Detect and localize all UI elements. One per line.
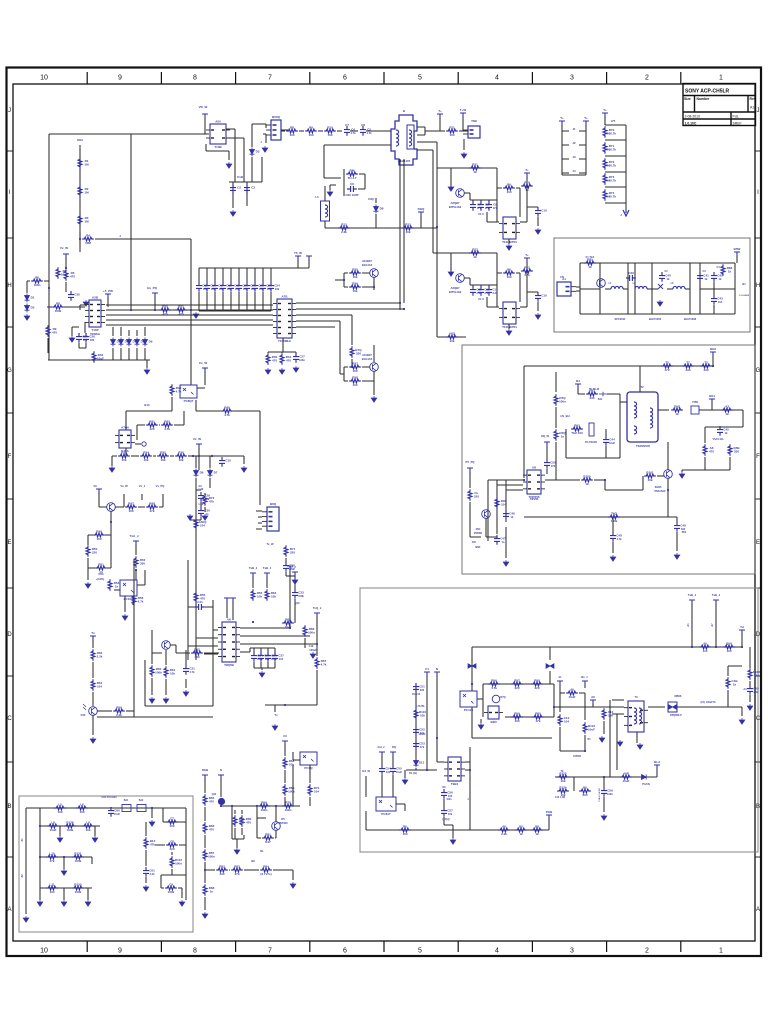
wire [165,650,167,695]
wire [578,388,585,394]
resistor R46 [175,454,187,458]
svg-text:TxB_J: TxB_J [249,566,258,570]
capacitor C29 [198,492,204,502]
svg-text:J2: J2 [572,141,576,145]
resistor R118 [620,775,632,779]
svg-text:VD_W: VD_W [199,105,208,109]
svg-text:R84: R84 [263,864,269,868]
svg-text:100: 100 [402,832,407,836]
svg-text:H: H [756,283,760,289]
svg-text:220: 220 [92,551,97,555]
resistor R90 [703,444,707,456]
capacitor C12 [478,286,484,296]
capacitor C42 [292,589,298,599]
wire [480,719,482,723]
wire [527,207,538,226]
transistor Q13 [482,510,491,519]
wire box3 rect bottom [472,737,552,739]
capacitor C28 [219,457,225,467]
svg-text:C3: C3 [251,186,255,190]
ground [230,210,236,216]
svg-text:Tx: Tx [274,713,278,717]
wire [559,727,561,751]
svg-text:330: 330 [703,368,708,372]
svg-text:R41: R41 [149,419,155,423]
svg-text:C41: C41 [197,600,203,604]
ground [183,690,189,696]
svg-text:R12: R12 [341,222,347,226]
svg-text:F1 T2A: F1 T2A [586,255,595,259]
svg-text:R49: R49 [96,529,102,533]
wire [711,403,713,410]
junction [712,365,714,367]
wire [712,356,714,366]
wire [316,670,318,705]
capacitor C76 [441,807,447,817]
svg-text:100k: 100k [257,657,263,661]
svg-text:C38: C38 [289,564,295,568]
wire ladder1 rung 1 [562,130,586,132]
junction [135,569,137,571]
svg-text:C41: C41 [703,274,709,278]
junction [275,805,277,807]
wire bus left ext [47,306,85,308]
svg-text:HV_BH: HV_BH [560,414,569,418]
wire [647,288,652,290]
svg-text:T8Q5B: T8Q5B [224,663,235,667]
capacitor C10 [535,207,541,217]
wire [375,198,377,228]
wire bus drop lower 7 [246,292,248,311]
wire left vertical [48,134,50,360]
wire bus drop 2 [206,268,208,282]
wire [163,808,186,822]
svg-text:Vx_PQ: Vx_PQ [156,484,165,488]
jumper JP1 [122,805,131,812]
svg-text:B1G4A5: B1G4A5 [362,357,373,361]
wire [658,409,669,411]
svg-text:1k: 1k [115,585,119,589]
wire L5 [324,186,326,228]
wire cap cluster [229,157,262,208]
svg-text:A6: A6 [502,824,506,828]
svg-text:C31: C31 [189,667,195,671]
capacitor C58 [494,535,500,545]
svg-text:RQ: RQ [392,745,396,749]
resistor R26 [349,285,361,289]
ground [272,724,278,730]
wire box4 left rail [25,808,27,914]
wire bus drop 5 [230,268,232,282]
svg-text:A: A [756,907,760,913]
ground [279,368,285,374]
controller U6 [218,622,240,662]
svg-text:R4: R4 [86,233,90,237]
svg-text:PC-P2LDB: PC-P2LDB [585,441,597,444]
wire [284,797,286,806]
wire CN1 to rails [576,263,580,314]
resistor R82 [700,364,712,368]
capacitor C11 [470,286,476,296]
svg-text:A0Q: A0Q [449,331,456,335]
resistor R103 [511,682,523,686]
power P9 [295,256,301,261]
varistor RV1 [658,284,663,289]
svg-text:TxQ_J: TxQ_J [313,606,322,610]
svg-text:Q10: Q10 [294,601,300,605]
wire [351,359,353,368]
svg-text:10uF: 10uF [61,273,68,277]
svg-text:4.7k: 4.7k [491,686,497,690]
svg-text:R93: R93 [574,423,580,427]
ground [292,578,298,584]
svg-text:TH 4.7: TH 4.7 [347,176,356,180]
resistor R91 [728,444,732,456]
bridge diodes D15 [669,705,677,710]
wire [486,518,497,537]
title block [683,84,756,127]
svg-text:D3: D3 [256,150,260,154]
svg-text:PC9Q: PC9Q [304,766,313,770]
svg-text:4.7k: 4.7k [189,670,195,674]
svg-text:R36: R36 [178,450,184,454]
ic U12 [484,706,503,719]
wire U10 right 5 [296,326,335,328]
wire [170,455,174,457]
diode DX129 [127,338,132,347]
svg-text:C47: C47 [500,537,506,541]
svg-text:6: 6 [343,948,347,955]
wire [350,130,358,132]
svg-text:C53: C53 [419,742,425,746]
capacitor C2 [230,184,236,194]
svg-text:T6B: T6B [471,119,478,123]
svg-text:B1G4A5: B1G4A5 [362,263,373,267]
svg-text:47k: 47k [493,206,498,210]
capacitor C46 [265,652,271,662]
wire [309,797,311,806]
wire [604,480,606,490]
svg-text:R19: R19 [524,180,530,184]
svg-text:T5_W: T5_W [294,251,302,255]
wire [497,273,520,302]
ground [747,704,753,710]
capacitor CB6 [236,282,242,292]
resistor R88 [671,408,683,412]
wire [343,169,345,196]
svg-text:R48: R48 [149,501,155,505]
svg-text:G: G [7,368,12,374]
svg-text:R1 (4x): R1 (4x) [409,772,417,775]
svg-text:T5: T5 [665,360,669,364]
wire [526,271,528,307]
svg-text:L6: L6 [80,802,84,806]
wire box4 rail2 [40,808,100,826]
svg-text:B64: B64 [709,394,715,398]
ground [85,582,91,588]
svg-text:100n: 100n [208,855,215,859]
svg-text:T0P25B: T0P25B [530,498,539,501]
svg-text:T2: T2 [640,385,644,389]
svg-text:CN: CN [560,275,564,279]
svg-text:D5: D5 [281,817,285,821]
tick bottom [160,941,162,952]
wire chain to right [80,232,191,246]
svg-text:100: 100 [79,810,84,814]
svg-text:100k: 100k [75,859,82,863]
resistor R81 [682,364,694,368]
wire [151,630,153,695]
wire ladder left [415,684,417,763]
resistor R136 [72,855,84,859]
svg-text:100: 100 [352,383,357,387]
svg-text:1k: 1k [733,683,737,687]
svg-text:T+: T+ [438,109,442,113]
wire [699,409,743,411]
wire [152,645,219,653]
resistor R54 [251,589,255,601]
resistor R131 [76,806,88,810]
wire [605,429,607,458]
wire [469,747,471,830]
svg-text:10uF: 10uF [396,770,402,774]
svg-text:R124: R124 [559,785,567,789]
diode D11 [691,406,699,414]
svg-text:C8: C8 [170,839,174,843]
svg-text:100: 100 [289,133,294,137]
svg-text:8: 8 [193,75,197,82]
svg-text:U6: U6 [227,618,231,622]
wire [699,282,701,289]
svg-text:R36: R36 [352,281,358,285]
wire [309,765,311,783]
capacitor C77 [747,685,753,695]
power P39 [546,815,552,820]
wire [339,321,341,345]
wire loop [232,806,244,839]
svg-text:R56: R56 [491,678,497,682]
svg-text:470: 470 [52,331,57,335]
resistor R112 [726,677,730,689]
svg-text:T+: T+ [584,116,588,120]
wire box3 mid rail2 [505,716,554,718]
svg-text:104: 104 [49,890,54,894]
wire bus drop lower 8 [254,292,256,311]
wire bus top [199,267,274,269]
svg-text:T10UBP01: T10UBP01 [502,325,517,329]
power V9 bar [96,489,102,494]
svg-text:470: 470 [209,828,214,832]
wire [236,839,238,848]
svg-text:A10B07: A10B07 [362,353,372,357]
svg-text:R38: R38 [352,375,358,379]
svg-text:C37: C37 [278,654,284,658]
svg-text:T106MHz: T106MHz [278,339,292,343]
ground [674,553,680,559]
wire [235,810,242,839]
svg-text:C27: C27 [299,355,305,359]
wire [337,130,342,132]
ground [503,560,509,566]
diode D13 [546,664,554,669]
jumper JP2 [137,805,146,812]
resistor R57 [303,625,307,637]
resistor RL1 [603,126,607,138]
resistor R11 [305,129,317,133]
svg-text:R69: R69 [261,800,267,804]
wire [704,427,706,443]
wire [464,193,497,200]
svg-text:680.7k: 680.7k [607,195,617,199]
transistor Q6 [370,363,379,372]
svg-text:100k: 100k [271,657,277,661]
wire ladder2 rung 4 [605,171,626,173]
wire [713,282,715,314]
svg-text:10k: 10k [560,779,565,783]
svg-text:10k: 10k [143,458,148,462]
ground [262,146,268,152]
svg-text:220: 220 [534,686,539,690]
capacitor C70 [413,683,419,693]
power P1 [437,114,443,119]
svg-text:10k: 10k [170,672,175,676]
svg-text:C6: C6 [350,182,354,186]
svg-text:10k: 10k [257,595,262,599]
svg-text:Ad: Ad [743,688,747,691]
svg-text:104: 104 [564,720,569,724]
svg-text:D12: D12 [419,761,425,765]
wire box3 rail y707 left [555,706,612,708]
ground [187,514,193,520]
resistor R46 [194,591,198,603]
resistor R59 [283,757,287,769]
optocoupler U7 [300,752,317,765]
svg-text:470: 470 [664,368,669,372]
ic U1 [206,124,230,144]
svg-text:B50Q: B50Q [272,115,281,119]
svg-text:100: 100 [514,719,519,723]
ground [478,723,484,729]
svg-text:Vx_W: Vx_W [120,484,128,488]
svg-text:L10: L10 [49,851,55,855]
wire [607,394,620,410]
svg-text:2.2k: 2.2k [341,230,347,234]
svg-text:C33: C33 [298,591,304,595]
svg-text:10x_J: 10x_J [581,676,589,679]
svg-text:A6QB7: A6QB7 [451,201,460,205]
junction [715,646,717,648]
wire bus line 2 [106,309,273,311]
transformer T1 primary coil [396,130,399,146]
tick bottom [606,941,608,952]
power P16 [224,598,230,603]
ground [23,916,29,922]
svg-text:SONY ACP-CH5LR: SONY ACP-CH5LR [685,89,730,95]
wire bus drop lower 4 [222,292,224,311]
svg-text:470: 470 [286,359,291,363]
svg-text:A6QB7: A6QB7 [451,286,460,290]
wire bus drop 6 [238,268,240,282]
svg-text:B7PG4A9: B7PG4A9 [449,290,462,294]
svg-text:TxB_J: TxB_J [712,593,721,597]
svg-text:L11: L11 [49,882,54,886]
svg-text:E: E [756,540,760,546]
svg-text:L5: L5 [315,195,319,199]
tick top [383,72,385,84]
wire box4 right rail [185,808,187,900]
svg-text:SGB5: SGB5 [655,486,662,489]
svg-text:C45: C45 [723,428,729,432]
resistor R20 [469,251,481,255]
svg-text:10k: 10k [647,478,652,482]
capacitor CB7 [244,282,250,292]
wire [92,662,94,678]
wire [286,575,295,577]
wire [526,186,528,222]
svg-text:2N7000: 2N7000 [278,821,288,825]
capacitor CB3 [212,282,218,292]
wire [137,411,184,440]
wire [463,139,465,150]
power P23 [282,741,288,746]
junction [523,479,525,481]
svg-text:5: 5 [418,75,422,82]
power P20 [292,572,298,577]
capacitor C4 [344,126,350,136]
svg-text:C60 100P: C60 100P [345,193,358,197]
ground [61,869,67,875]
svg-text:100: 100 [327,133,332,137]
svg-text:100: 100 [96,537,101,541]
svg-text:A1: A1 [750,106,754,110]
svg-text:2: 2 [645,948,649,955]
wire [690,263,700,314]
tick right [755,498,761,500]
resistor R74 [216,868,228,872]
resistor R52 [164,666,168,678]
svg-text:R21: R21 [472,162,478,166]
svg-text:B8: B8 [251,859,255,863]
svg-text:4.7k: 4.7k [164,427,170,431]
wire ladder2 rung 6 [605,202,626,204]
wire [206,456,244,464]
resistor R38 [125,505,137,509]
wire [505,527,507,558]
svg-text:A6: A6 [591,695,595,699]
svg-text:1k: 1k [675,412,679,416]
junction [603,776,605,778]
junction [190,309,192,311]
wire mosfet drain [667,442,669,470]
wire to J3 [233,411,260,505]
tick top [606,72,608,84]
ground [37,900,43,906]
wire [220,805,222,806]
wire [198,456,200,470]
diode D16 [640,775,649,780]
wire VD_W drop [204,118,206,134]
resistor R55 [265,589,269,601]
svg-text:BH-P1002: BH-P1002 [649,317,662,321]
svg-text:1M: 1M [84,163,89,167]
svg-text:Size: Size [684,97,691,101]
svg-text:4.7k: 4.7k [321,663,327,667]
svg-text:C1B: C1B [237,175,244,179]
svg-text:R33: R33 [121,450,127,454]
wire [487,297,499,307]
svg-text:1: 1 [719,75,723,82]
svg-text:DO: DO [472,541,476,544]
